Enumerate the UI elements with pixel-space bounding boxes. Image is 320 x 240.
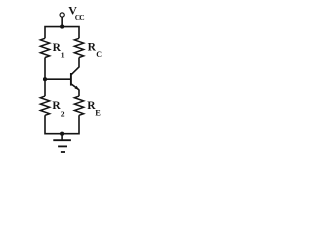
- svg-text:C: C: [96, 50, 102, 59]
- resistor RE: [74, 96, 83, 115]
- ground stub: [61, 134, 63, 141]
- resistor RC: [74, 38, 83, 57]
- ground bar 3: [61, 151, 65, 153]
- svg-text:CC: CC: [75, 13, 84, 22]
- transistor Q1 base bar: [70, 73, 72, 86]
- wire collector: [71, 58, 79, 75]
- resistor R2: [40, 96, 49, 115]
- transistor Q1 emitter arrowhead: [75, 86, 79, 90]
- wire bottom rail with corners: [45, 115, 79, 133]
- wire emitter down: [78, 89, 80, 96]
- svg-text:1: 1: [61, 51, 65, 60]
- svg-text:E: E: [95, 109, 101, 118]
- ground bar 1: [53, 139, 71, 141]
- wire top rail with corners: [45, 27, 79, 39]
- junction dot Vcc node: [60, 25, 64, 29]
- resistor R1: [40, 38, 49, 57]
- transistor Q1 emitter: [71, 84, 79, 90]
- junction dot ground node: [60, 132, 64, 136]
- junction dot base node: [43, 77, 47, 81]
- wire base: [45, 78, 71, 80]
- ground bar 2: [58, 145, 67, 147]
- svg-text:2: 2: [61, 110, 65, 119]
- wire left middle: [44, 58, 46, 97]
- Vcc terminal circle: [60, 13, 64, 17]
- wire Vcc stub: [61, 17, 63, 27]
